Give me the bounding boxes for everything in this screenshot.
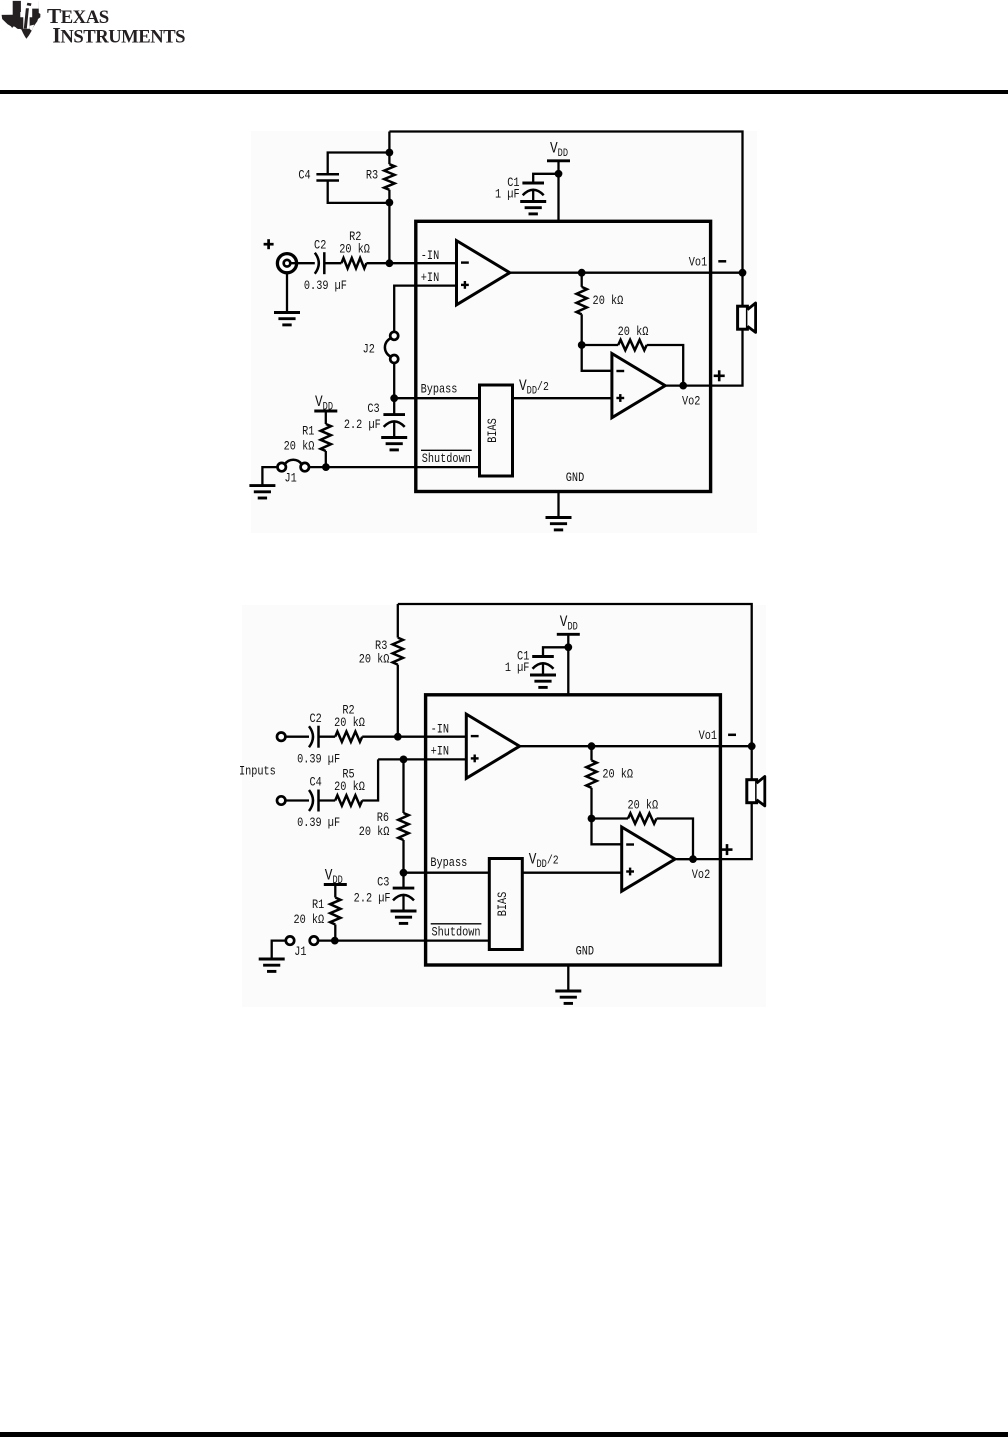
svg-text:20 kΩ: 20 kΩ — [334, 716, 365, 730]
svg-text:0.39 µF: 0.39 µF — [297, 816, 340, 830]
svg-text:BIAS: BIAS — [486, 418, 500, 443]
svg-text:20 kΩ: 20 kΩ — [284, 439, 315, 453]
svg-text:20 kΩ: 20 kΩ — [618, 325, 649, 339]
svg-text:-IN: -IN — [421, 249, 439, 263]
svg-text:20 kΩ: 20 kΩ — [359, 653, 390, 667]
svg-text:20 kΩ: 20 kΩ — [334, 780, 365, 794]
svg-text:20 kΩ: 20 kΩ — [293, 913, 324, 927]
svg-text:R6: R6 — [377, 811, 389, 825]
svg-text:20 kΩ: 20 kΩ — [593, 294, 624, 308]
svg-text:BIAS: BIAS — [496, 892, 510, 917]
svg-text:GND: GND — [566, 471, 584, 485]
svg-text:C3: C3 — [367, 402, 379, 416]
svg-text:Bypass: Bypass — [421, 382, 458, 396]
svg-text:VDD: VDD — [550, 140, 568, 159]
svg-text:Vo2: Vo2 — [692, 868, 710, 882]
svg-text:20 kΩ: 20 kΩ — [359, 825, 390, 839]
svg-text:1 µF: 1 µF — [505, 661, 530, 675]
svg-text:+IN: +IN — [421, 271, 439, 285]
svg-text:J1: J1 — [284, 472, 296, 486]
svg-text:2.2 µF: 2.2 µF — [354, 892, 391, 906]
svg-text:20 kΩ: 20 kΩ — [602, 768, 633, 782]
svg-text:Vo1: Vo1 — [689, 255, 707, 269]
svg-text:GND: GND — [576, 945, 594, 959]
svg-text:20 kΩ: 20 kΩ — [627, 799, 658, 813]
svg-text:Bypass: Bypass — [430, 856, 467, 870]
svg-text:2.2 µF: 2.2 µF — [344, 418, 381, 432]
svg-text:J2: J2 — [363, 343, 375, 357]
svg-text:R1: R1 — [312, 898, 324, 912]
svg-text:Vo2: Vo2 — [682, 394, 700, 408]
svg-text:C3: C3 — [377, 876, 389, 890]
svg-text:J1: J1 — [294, 945, 306, 959]
svg-text:0.39 µF: 0.39 µF — [297, 752, 340, 766]
svg-text:R3: R3 — [366, 169, 378, 183]
svg-text:+IN: +IN — [431, 745, 449, 759]
svg-text:0.39 µF: 0.39 µF — [304, 279, 347, 293]
svg-text:R3: R3 — [375, 639, 387, 653]
svg-text:20 kΩ: 20 kΩ — [339, 243, 370, 257]
svg-text:C4: C4 — [309, 776, 321, 790]
svg-text:Shutdown: Shutdown — [431, 926, 480, 940]
svg-text:Inputs: Inputs — [239, 764, 276, 778]
svg-text:R1: R1 — [302, 425, 314, 439]
svg-text:VDD/2: VDD/2 — [529, 851, 559, 870]
svg-text:C2: C2 — [314, 238, 326, 252]
svg-text:-IN: -IN — [431, 722, 449, 736]
svg-text:Vo1: Vo1 — [699, 729, 717, 743]
svg-text:C4: C4 — [298, 169, 310, 183]
svg-text:Shutdown: Shutdown — [422, 452, 471, 466]
svg-text:C2: C2 — [309, 712, 321, 726]
svg-text:VDD: VDD — [560, 614, 578, 633]
svg-text:VDD/2: VDD/2 — [519, 378, 549, 397]
svg-text:1 µF: 1 µF — [495, 188, 520, 202]
